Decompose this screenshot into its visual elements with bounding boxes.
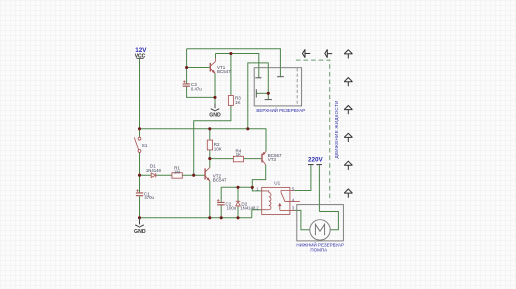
switch S1	[134, 137, 141, 152]
junction S1 bottom / C1 / D1 node	[138, 174, 141, 177]
wire R3 top lead	[230, 54, 232, 96]
wire rail C to electrode 2	[248, 63, 268, 129]
flow arrow left 2	[325, 49, 332, 57]
svg-text:1N4148: 1N4148	[240, 206, 256, 211]
svg-text:ДВИЖЕНИЕ ЖИДКОСТИ: ДВИЖЕНИЕ ЖИДКОСТИ	[334, 101, 339, 159]
terminal bars 220V	[308, 164, 322, 166]
power VCC 12V	[135, 47, 147, 59]
junction R3 top on rail B	[229, 52, 232, 55]
svg-text:GND: GND	[209, 113, 221, 119]
flow arrows up column	[344, 50, 352, 198]
svg-text:ВЕРХНИЙ РЕЗЕРВУАР: ВЕРХНИЙ РЕЗЕРВУАР	[256, 106, 305, 113]
transistor VT3 BC557	[262, 151, 266, 164]
junction reservoir level probe node	[267, 92, 270, 95]
junction S1 top node	[138, 127, 141, 130]
relay U1	[262, 187, 300, 214]
resistor R4 1K	[233, 156, 243, 162]
svg-text:BC547: BC547	[213, 178, 227, 183]
upper reservoir box	[254, 68, 301, 106]
electrode bar 3	[277, 76, 284, 78]
svg-text:1K: 1K	[236, 152, 241, 157]
junction VT3 collector / relay pin1 node	[251, 186, 254, 189]
resistor R3 1K	[228, 96, 233, 106]
svg-text:0.47u: 0.47u	[191, 86, 202, 91]
transistor VT2 BC547	[205, 168, 210, 181]
wire relay pin2 jog	[252, 210, 262, 218]
junction VT1 emitter / C3 / GND node	[213, 96, 216, 99]
svg-text:VT3: VT3	[268, 157, 277, 162]
wire C1 top lead	[139, 175, 141, 192]
wire 220V right terminal to motor	[319, 165, 338, 230]
ground GND center	[209, 104, 221, 119]
wire R2 bottom to R4 to VT3 base	[210, 150, 262, 159]
reservoir inner dashed level	[296, 68, 298, 105]
wire ground rail bottom	[140, 217, 252, 219]
wire C3 top lead	[186, 49, 188, 84]
wire S1 bottom to D1 row	[139, 152, 141, 175]
wire C3 bottom row to GND	[187, 86, 215, 107]
wire R3 bottom to VT2 base junction	[194, 105, 231, 175]
capacitor C1 470u	[136, 193, 143, 196]
svg-text:1K: 1K	[235, 100, 241, 105]
junction reservoir electrode branch on mid rail	[246, 127, 249, 130]
wire rail A to electrode 3	[187, 49, 281, 77]
svg-text:S1: S1	[142, 143, 148, 148]
wire relay pin1 jog	[252, 187, 261, 191]
ground GND left	[134, 218, 146, 235]
svg-text:1M: 1M	[174, 169, 180, 174]
svg-text:BC547: BC547	[217, 69, 231, 74]
wire relay pin5 to 220V left terminal	[295, 165, 311, 190]
transistor VT1 BC547	[210, 59, 215, 74]
wire D2 leads	[237, 187, 239, 218]
wire level probe	[256, 92, 268, 94]
wire relay pin3 to motor	[295, 210, 310, 229]
wire VT2 emitter lead	[209, 181, 211, 218]
junction R2 bottom / R4 / VT2 collector node	[208, 157, 211, 160]
junction D2 bottom on ground rail	[236, 216, 239, 219]
wire D1 R1 VT2 base row	[140, 174, 205, 176]
wire C2 D2 relay row	[221, 187, 252, 202]
wire VT1 collector stem	[215, 54, 217, 59]
junction C2 bottom on ground rail	[220, 216, 223, 219]
svg-text:100u: 100u	[227, 206, 237, 211]
electrode bar 1	[255, 77, 261, 79]
electrode bar 2	[265, 99, 272, 101]
diode D1 1N4148	[151, 173, 156, 178]
diode D2 1N4148	[236, 201, 241, 206]
junction D2 top / C2 top node	[236, 186, 239, 189]
wire VCC stem	[139, 58, 141, 137]
junction C3 / VT1 base node	[185, 66, 188, 69]
wire rail B VT1 collector to electrode 1	[216, 54, 259, 78]
svg-text:10K: 10K	[214, 146, 222, 151]
wire R2 top lead	[209, 129, 211, 140]
flow arrow left 1	[303, 49, 311, 57]
wire VT3 collector to relay pin1	[252, 165, 265, 188]
svg-text:220V: 220V	[308, 156, 324, 163]
motor M1	[310, 220, 330, 240]
wire VT2 collector lead	[209, 159, 211, 168]
wire C1 bottom lead	[139, 196, 141, 218]
junction R3 bottom / VT2 base node	[192, 174, 195, 177]
resistor R2 10K	[207, 140, 212, 150]
svg-text:1N4148: 1N4148	[146, 168, 162, 173]
wire C2 bottom lead	[220, 205, 222, 218]
svg-text:ПОМПА: ПОМПА	[310, 247, 327, 252]
junction ground rail left node	[138, 216, 141, 219]
resistor R1 1M	[172, 173, 182, 179]
junction VT2 emitter on ground rail	[208, 216, 211, 219]
wire mid rail to VT3 emitter	[140, 129, 267, 152]
svg-text:470u: 470u	[144, 195, 154, 200]
svg-text:U1: U1	[274, 181, 280, 186]
svg-text:GND: GND	[134, 229, 146, 235]
capacitor C2 100u	[217, 202, 225, 204]
capacitor C3 0.47u	[183, 84, 190, 86]
probe bar vertical	[255, 89, 257, 97]
junction R2 top on mid rail	[208, 127, 211, 130]
wire VT1 emitter stem	[214, 73, 216, 97]
wire VT1 base link	[187, 67, 210, 69]
flow dashed path	[296, 60, 330, 201]
lower reservoir pump box	[297, 205, 344, 241]
